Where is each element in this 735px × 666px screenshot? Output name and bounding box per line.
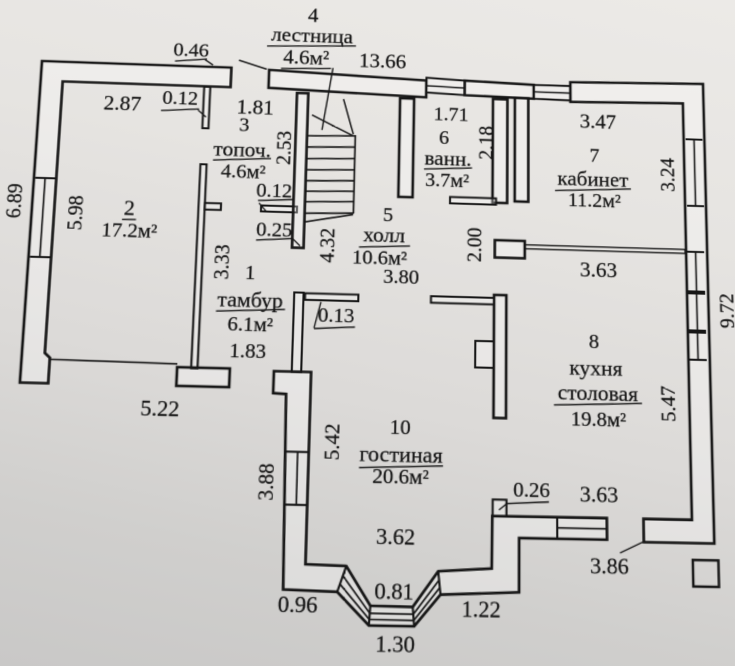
tick 0.12 mid — [259, 203, 267, 211]
svg-text:13.66: 13.66 — [359, 50, 407, 73]
svg-text:3: 3 — [239, 114, 250, 136]
svg-text:2.53: 2.53 — [272, 130, 296, 165]
wall: bathroom left — [398, 98, 414, 197]
svg-text:6.1м²: 6.1м² — [227, 313, 273, 337]
svg-text:5.47: 5.47 — [657, 385, 681, 422]
underline 0.25 — [256, 237, 293, 241]
svg-text:3.62: 3.62 — [376, 526, 416, 551]
svg-text:0.12: 0.12 — [256, 179, 293, 202]
underline топоч. — [213, 157, 271, 162]
svg-text:1.30: 1.30 — [375, 633, 415, 658]
svg-text:4: 4 — [308, 6, 320, 27]
tick 0.46 — [205, 60, 214, 66]
svg-text:4.32: 4.32 — [316, 228, 340, 264]
underline 0.13 — [314, 326, 355, 330]
svg-text:20.6м²: 20.6м² — [372, 465, 429, 490]
wall: top band segment — [465, 81, 534, 99]
svg-text:2.18: 2.18 — [475, 125, 498, 160]
window W-right2 in right wall — [687, 251, 704, 253]
bay: cap line west — [337, 566, 346, 592]
pillar: detached square SE — [693, 560, 719, 587]
svg-text:0.13: 0.13 — [318, 304, 355, 328]
bay: west window line 2 — [339, 584, 370, 619]
svg-text:3.24: 3.24 — [657, 158, 680, 193]
svg-text:2.00: 2.00 — [463, 227, 486, 262]
wall: top-right band + right exterior wall + kitchen SE corner — [570, 79, 714, 543]
wall: study left — [515, 98, 529, 202]
stairs: treads — [307, 134, 355, 137]
svg-text:лестница: лестница — [271, 24, 353, 48]
svg-text:5: 5 — [383, 204, 394, 226]
underline холл — [359, 244, 410, 248]
svg-text:3.7м²: 3.7м² — [425, 169, 469, 192]
svg-text:столовая: столовая — [558, 381, 639, 406]
underline 0.26 — [507, 501, 549, 504]
stairs: break line 2 — [343, 99, 355, 134]
svg-text:3.80: 3.80 — [383, 266, 419, 289]
wall: top band over stairs — [268, 70, 426, 98]
wall: tambour SE pier + living west wall + bay window walls + kitchen south band — [265, 371, 608, 629]
bay: cap line east — [438, 571, 441, 594]
tick 0.13 — [314, 302, 321, 328]
svg-text:8: 8 — [589, 330, 600, 353]
svg-text:0.81: 0.81 — [374, 580, 414, 605]
svg-text:0.46: 0.46 — [173, 39, 209, 61]
wall: kitchen-hall partition — [494, 295, 507, 418]
stairs: right edge — [353, 135, 355, 213]
svg-text:0.96: 0.96 — [277, 593, 317, 618]
bay: west window line 1 — [342, 576, 371, 613]
svg-text:3.63: 3.63 — [580, 259, 617, 282]
window W-right4 in right wall — [689, 331, 706, 333]
wall: partition 0.12 boiler/tambour — [261, 205, 297, 212]
wall: entrance pier west — [176, 367, 230, 387]
svg-text:3.86: 3.86 — [590, 555, 629, 580]
svg-text:19.8м²: 19.8м² — [571, 408, 627, 432]
wall: outer top-left band + left exterior wall — [20, 61, 232, 387]
underline ванн. — [424, 166, 472, 170]
window W-left in left wall (caps + centre line) — [35, 177, 56, 180]
partition: study/kitchen thin double line — [525, 245, 685, 254]
underline room2 — [122, 218, 136, 221]
underline 0.12 top — [161, 108, 199, 112]
underline кабинет — [555, 187, 631, 193]
stairs: break line 1 — [311, 115, 353, 136]
wall: partition room2/boiler upper part — [202, 87, 210, 129]
bay: east window line 1 — [413, 580, 439, 615]
underline лестница — [267, 43, 356, 49]
wall: thin front line of room2 — [49, 359, 177, 364]
svg-text:3.88: 3.88 — [254, 463, 279, 501]
svg-text:4.6м²: 4.6м² — [283, 47, 330, 70]
tick 0.25 — [293, 239, 300, 246]
underline 0.46 — [175, 58, 207, 62]
svg-text:11.2м²: 11.2м² — [568, 189, 621, 212]
bay: cap line SW — [369, 606, 370, 626]
underline гостиная — [359, 464, 443, 469]
svg-text:17.2м²: 17.2м² — [101, 219, 158, 243]
svg-text:кухня: кухня — [569, 357, 623, 381]
svg-text:3.47: 3.47 — [580, 111, 617, 133]
bay: south window line 2 — [369, 618, 413, 621]
svg-text:3.63: 3.63 — [580, 483, 619, 507]
svg-text:холл: холл — [363, 224, 405, 247]
wall: tambour right thin wall — [292, 292, 304, 372]
wall: stub on kitchen-hall partition — [475, 341, 494, 368]
wall: hall-living partition piece — [431, 296, 494, 304]
wall: small stub on tambour wall — [205, 203, 221, 210]
wall: bathroom bottom 0.25 piece — [450, 197, 496, 205]
tick 0.12 top — [198, 110, 207, 117]
underline столовая — [554, 401, 642, 407]
svg-text:5.42: 5.42 — [320, 423, 344, 460]
wall: partition room2/tambour lower part — [191, 164, 206, 369]
wall: 0.13 partition piece — [305, 293, 358, 301]
svg-text:7: 7 — [589, 145, 599, 167]
svg-text:9.72: 9.72 — [716, 293, 735, 329]
bay: cap line SE — [412, 607, 414, 626]
window W-top2 in top band — [534, 85, 571, 101]
bay: east window line 2 — [414, 587, 440, 621]
leader 0.26 — [499, 503, 507, 510]
leader line from stairs label — [322, 68, 333, 131]
svg-text:1.22: 1.22 — [461, 598, 500, 623]
wall: 0.26 stub on kitchen band — [493, 500, 507, 517]
underline 0.12 mid — [258, 198, 294, 201]
wall: bathroom right / shaft — [492, 99, 507, 203]
svg-text:2.87: 2.87 — [103, 93, 142, 116]
leader 3.86 — [620, 541, 645, 554]
svg-text:1: 1 — [245, 262, 256, 285]
window W-top1 in top band — [426, 78, 465, 95]
svg-text:6: 6 — [439, 127, 449, 149]
bay: south window line 1 — [370, 613, 414, 614]
svg-text:5.22: 5.22 — [140, 398, 180, 422]
wall: stair left wall — [292, 93, 308, 248]
svg-text:0.26: 0.26 — [513, 478, 550, 502]
svg-text:0.12: 0.12 — [162, 87, 199, 110]
underline тамбур — [216, 308, 285, 313]
window W-right3 in right wall — [688, 292, 705, 294]
window W-right1 in right wall — [686, 138, 703, 141]
wall: pier at study SW corner — [495, 240, 525, 258]
underline 4.6м² — [281, 67, 331, 70]
svg-text:2: 2 — [123, 198, 135, 220]
svg-text:ванн.: ванн. — [424, 148, 471, 171]
svg-text:1.83: 1.83 — [229, 339, 267, 363]
door line in top opening — [239, 60, 267, 69]
window W-living in living west wall — [285, 451, 309, 454]
svg-text:10: 10 — [389, 416, 410, 440]
svg-text:6.89: 6.89 — [2, 183, 28, 219]
svg-text:5.98: 5.98 — [63, 195, 88, 231]
svg-text:3.33: 3.33 — [210, 244, 235, 280]
svg-text:1.71: 1.71 — [433, 103, 468, 125]
stairs: winder tread — [305, 213, 353, 223]
window W-kitchen in south band — [556, 517, 558, 539]
